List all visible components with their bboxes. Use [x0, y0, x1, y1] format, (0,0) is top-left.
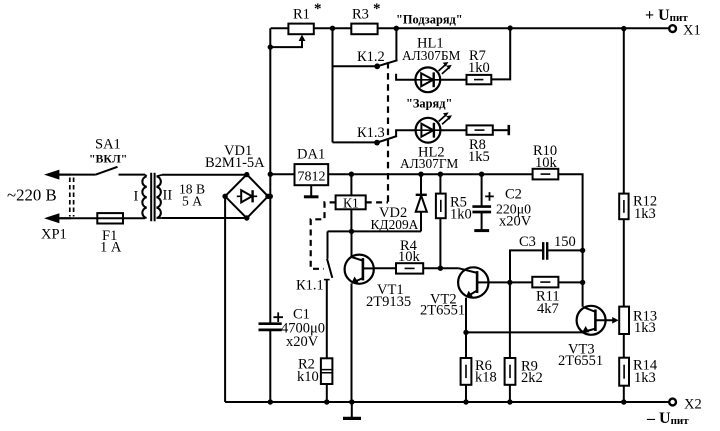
resistor R6 tick: [465, 365, 467, 378]
wire R6 bottom to rail: [465, 385, 467, 402]
wire VD2 bottom lead: [420, 212, 422, 231]
svg-text:К1.2: К1.2: [357, 49, 385, 65]
node dot R11 right: [580, 280, 585, 285]
wire C2 top lead: [481, 174, 483, 205]
svg-text:SA1: SA1: [95, 137, 121, 153]
potentiometer R13 wiper arrowhead: [612, 317, 618, 324]
wire main 12V rail DA1 left: [270, 173, 294, 175]
bridge VD1 inner diode: [237, 195, 257, 197]
node dot bridge bottom vertex: [244, 215, 249, 220]
diode VD2 cathode bar: [416, 194, 427, 196]
transformer T secondary bottom lead: [157, 217, 162, 219]
capacitor C2 plates: [472, 205, 491, 208]
transformer T primary winding: [142, 176, 146, 218]
wire R10 right tail down to VT3: [558, 174, 582, 307]
resistor R9 tick: [509, 365, 511, 378]
svg-text:2Т6551: 2Т6551: [420, 303, 465, 319]
LED HL2 emission arrows: [439, 115, 449, 124]
relay K1 coil box: [336, 195, 366, 209]
svg-text:1 А: 1 А: [100, 240, 122, 256]
svg-text:R1: R1: [293, 7, 310, 23]
wire C3 right: [548, 249, 583, 251]
node dot X1 branch: [621, 26, 626, 31]
wire K1 coil bottom lead: [350, 209, 352, 231]
svg-text:1k3: 1k3: [634, 320, 656, 336]
node dot rail A at 12V rail: [268, 172, 273, 177]
wire VD2 riser top: [420, 174, 422, 194]
node dot rail A bottom: [268, 399, 273, 404]
resistor R3 body: [351, 24, 377, 35]
resistor R8 body: [467, 125, 493, 134]
node dot rail A at bridge: [268, 194, 273, 199]
ground symbol: [351, 402, 353, 418]
resistor R2 body: [321, 358, 333, 384]
node dot VD2 top: [418, 172, 423, 177]
node dot K1.3 pivot: [374, 140, 380, 146]
LED HL2 circle: [416, 118, 441, 143]
node dot K1 coil top: [349, 172, 354, 177]
relay link dashed vertical: [387, 62, 389, 202]
wire through fuse F1: [97, 217, 123, 219]
wire top rail R1 to R3: [314, 27, 352, 29]
node dot bridge top vertex: [244, 172, 249, 177]
capacitor C2 bottom terminator bar: [474, 229, 489, 232]
wire mains lower lead to F1: [57, 217, 97, 219]
wire main 12V rail DA1 right to R10: [328, 173, 532, 175]
wire R8 right to terminator: [493, 129, 508, 131]
wire R5 riser: [439, 174, 441, 193]
wire K1.2 row: [333, 65, 378, 67]
capacitor C2 plus sign: [485, 192, 494, 201]
transformer T secondary winding: [157, 176, 161, 218]
node dot R7 riser top: [508, 25, 513, 30]
svg-text:К1.3: К1.3: [357, 125, 385, 141]
wire bottom ground rail: [225, 401, 669, 403]
node dot C2 top: [479, 172, 484, 177]
wire C3 left with corner down: [510, 250, 543, 282]
svg-text:I: I: [134, 189, 139, 205]
svg-text:x20V: x20V: [286, 334, 319, 350]
resistor R5 body: [436, 194, 446, 219]
relay link dashed stub right of K1: [366, 201, 388, 203]
node dot R9 bottom: [507, 399, 512, 404]
LED HL1 circle: [415, 67, 440, 92]
wire R5 bottom to base node: [439, 218, 441, 268]
capacitor C1 plus sign: [273, 312, 283, 322]
wire R9 top lead: [509, 282, 511, 358]
node dot bridge left vertex: [222, 194, 227, 199]
svg-text:В2М1-5А: В2М1-5А: [205, 155, 265, 171]
wire rail A lower (C1 bottom to ground rail): [269, 331, 271, 402]
wire K-contacts branch vertical: [332, 28, 334, 142]
contact K1.2 arm: [377, 60, 397, 66]
resistor R11 dash mark: [540, 281, 550, 283]
LED HL1 cathode bar: [433, 72, 435, 87]
contact K1.3 arm: [377, 136, 397, 143]
node dot K1.2 pivot: [374, 63, 380, 69]
resistor R7 dash mark: [474, 79, 483, 81]
wire K1.1 lower lead to R2: [326, 280, 328, 358]
bridge rectifier VD1 diamond: [225, 174, 268, 218]
wire K1 coil riser top: [350, 174, 352, 195]
wire coil-bottom bus: [328, 230, 422, 232]
wire R2 bottom to rail: [326, 384, 328, 402]
wire VT1 emitter to rail: [351, 284, 353, 402]
svg-text:1k0: 1k0: [450, 207, 472, 223]
wire HL2 to R8: [440, 129, 466, 131]
wire secondary bottom to bridge: [162, 217, 247, 219]
wire K1.3 row: [333, 141, 378, 143]
svg-text:"Заряд": "Заряд": [406, 97, 452, 111]
svg-text:1k5: 1k5: [468, 149, 490, 165]
wire bridge minus drop: [224, 196, 226, 402]
svg-text:C2: C2: [505, 187, 522, 203]
LED HL1 wire through: [415, 79, 440, 81]
wire R7 right riser to top rail: [491, 28, 510, 79]
svg-text:150: 150: [554, 234, 576, 250]
diode VD2 triangle: [416, 196, 427, 212]
wire F1 to primary: [123, 217, 145, 219]
resistor R1 (trimmer) body: [288, 24, 313, 35]
resistor R14 tick: [623, 365, 625, 379]
svg-text:~220 В: ~220 В: [7, 186, 57, 205]
potentiometer R13 body: [619, 307, 629, 334]
node dot ground stem: [349, 399, 354, 404]
svg-text:II: II: [163, 188, 173, 204]
node dot VT2 base node: [438, 266, 443, 271]
contact K1.1 arm: [327, 259, 332, 278]
wire emitter bus VT2 to VT3: [466, 331, 583, 333]
resistor R4 body: [396, 263, 423, 273]
svg-text:КД209А: КД209А: [371, 217, 419, 232]
node dot R2 bottom: [324, 399, 329, 404]
svg-text:R3: R3: [352, 7, 369, 23]
switch SA1 arm: [96, 167, 118, 175]
svg-text:*: *: [314, 1, 322, 17]
wire SA1 to primary: [119, 174, 146, 176]
svg-text:*: *: [373, 1, 381, 17]
contact K1.1 lower terminal tick: [324, 279, 330, 281]
svg-text:k10: k10: [297, 369, 319, 385]
svg-text:DA1: DA1: [297, 147, 325, 163]
wire K1.2 upper throw stub: [395, 28, 397, 61]
svg-text:10k: 10k: [398, 249, 421, 265]
wire right rail X1 to R12: [623, 29, 625, 194]
relay link dashed path to K1.1: [311, 202, 336, 268]
resistor R5 tick: [440, 200, 442, 212]
svg-text:7812: 7812: [298, 170, 326, 185]
node dot VT2 collector node: [507, 280, 512, 285]
node dot R1-R3 junction: [330, 26, 335, 31]
LED HL2 wire through: [416, 129, 441, 131]
wire VT1 base to R4: [374, 267, 396, 269]
transformer T secondary top lead: [157, 175, 162, 177]
wire HL1 to R7: [440, 79, 466, 81]
regulator DA1 box: [295, 164, 329, 185]
svg-text:АЛ307ГМ: АЛ307ГМ: [400, 156, 458, 171]
wire secondary top to bridge: [162, 174, 247, 176]
node dot right rail bottom: [621, 399, 626, 404]
svg-text:k18: k18: [475, 370, 497, 386]
capacitor C1 plates: [259, 322, 282, 325]
wire K1.2 lower throw stub to HL1: [396, 74, 415, 80]
terminator bar right of R8: [507, 125, 510, 135]
svg-text:+ Uпит: + Uпит: [645, 7, 688, 24]
svg-text:X2: X2: [684, 397, 702, 413]
svg-text:1k0: 1k0: [468, 60, 490, 76]
resistor R11 body: [532, 277, 558, 288]
wire R14 to rail: [623, 386, 625, 402]
node dot C3 right: [580, 248, 585, 253]
node dot R3 right junction: [394, 26, 399, 31]
regulator DA1 ground pin: [310, 185, 312, 196]
svg-text:"ВКЛ": "ВКЛ": [89, 152, 127, 166]
svg-text:2Т9135: 2Т9135: [366, 294, 411, 310]
node dot R6 bottom: [463, 399, 468, 404]
resistor R9 body: [505, 358, 516, 385]
wire R12 to R13: [623, 219, 625, 306]
svg-text:C3: C3: [519, 234, 536, 250]
transformer T core lines: [151, 173, 154, 221]
node dot bridge right vertex: [265, 194, 270, 199]
svg-text:ХР1: ХР1: [41, 227, 67, 243]
plug XP1 dashed separation lines: [70, 178, 74, 217]
resistor R1 wiper arrowhead: [299, 35, 306, 41]
terminal X2: [669, 399, 676, 406]
wire R11 right: [558, 281, 582, 283]
LED HL1 triangle: [421, 73, 433, 86]
transistor VT1: [345, 255, 374, 284]
wire C2 bottom lead: [481, 212, 483, 230]
plug XP1 arrow lower: [44, 213, 71, 223]
transformer T primary top lead: [145, 175, 147, 177]
node dot VT2 emitter node: [463, 330, 468, 335]
svg-text:– Uпит: – Uпит: [646, 410, 689, 427]
wire R13 to R14: [623, 334, 625, 358]
svg-text:5 А: 5 А: [182, 194, 202, 209]
wire R9 bottom to rail: [509, 385, 511, 402]
svg-text:1k3: 1k3: [634, 206, 656, 222]
resistor R10 dash mark: [541, 173, 551, 175]
wire VT2 collector to R11: [489, 281, 533, 283]
wire top rail "Подзаряд" net to X1: [378, 27, 669, 29]
node dot coil bottom: [349, 229, 354, 234]
wire R1 wiper arm: [270, 39, 302, 48]
wire K1.3 throw stub to HL2: [396, 130, 415, 136]
wire rail A upper (R1 left down to C1 top): [269, 28, 271, 323]
resistor R14 body: [619, 358, 629, 386]
svg-text:4k7: 4k7: [537, 301, 559, 317]
terminal X1: [669, 25, 676, 32]
svg-text:10k: 10k: [535, 155, 558, 171]
resistor R6 body: [461, 358, 472, 385]
fuse F1 body: [97, 213, 123, 223]
svg-text:2Т6551: 2Т6551: [558, 353, 603, 369]
svg-text:1k3: 1k3: [634, 370, 656, 386]
capacitor C3 plates: [543, 242, 547, 260]
wire R6 top lead: [465, 332, 467, 358]
LED HL1 emission arrows: [439, 65, 449, 74]
transistor VT3: [577, 306, 606, 335]
node dot R1 wiper: [268, 44, 273, 49]
resistor R8 dash mark: [475, 129, 485, 131]
resistor R7 body: [467, 75, 492, 84]
svg-text:"Подзаряд": "Подзаряд": [396, 13, 463, 27]
wire VT2 emitter drop: [465, 298, 467, 333]
svg-text:2k2: 2k2: [521, 370, 543, 386]
node dot R5 top: [438, 172, 443, 177]
transistor VT2: [458, 267, 488, 297]
svg-text:К1.1: К1.1: [296, 278, 324, 294]
wire R4 to VT2 base: [423, 267, 458, 269]
LED HL2 triangle: [421, 124, 433, 137]
resistor R4 dash mark: [405, 267, 415, 269]
resistor R10 body: [533, 169, 559, 180]
wire VT1 collector from bus: [351, 231, 353, 257]
wire top rail left of R1: [271, 27, 289, 29]
svg-text:X1: X1: [683, 23, 701, 39]
wire K1.1 upper lead: [327, 231, 329, 258]
LED HL2 cathode bar: [433, 123, 435, 138]
svg-text:x20V: x20V: [499, 214, 532, 230]
svg-text:К1: К1: [343, 196, 359, 211]
wire mains upper lead to SA1: [57, 174, 96, 176]
resistor R2 marks: [321, 370, 333, 373]
svg-text:АЛ307БМ: АЛ307БМ: [402, 48, 461, 63]
resistor R12 body: [619, 194, 628, 220]
plug XP1 arrow upper: [44, 170, 71, 180]
resistor R12 tick: [623, 200, 625, 213]
